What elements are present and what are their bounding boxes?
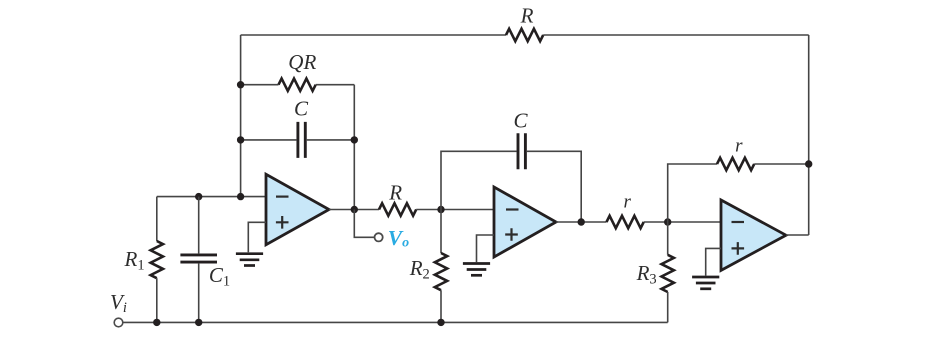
wire: op-amp 2 output line — [556, 221, 607, 223]
wire: C loop of op-amp 2, left vertical and top left — [441, 151, 517, 209]
node: 4-way junction at op-amp 2 input — [437, 206, 444, 213]
label r (middle) — [623, 192, 631, 213]
wire: top horizontal right segment — [543, 34, 809, 36]
resistor R1 — [151, 197, 163, 323]
wire: op-amp 1 non-inverting input to ground — [248, 222, 266, 252]
wire: C branch left (op-amp 1 feedback) — [241, 139, 297, 141]
resistor R2 — [435, 210, 447, 323]
wire: left vertical of outer feedback loop — [240, 35, 242, 197]
wire: op-amp 2 non-inverting input to ground — [477, 235, 495, 262]
wire: QR branch right — [316, 84, 355, 86]
label C (op-amp 2) — [513, 109, 528, 133]
node: feedback junction on minus line — [237, 193, 244, 200]
terminal Vo (open circle) — [375, 233, 383, 241]
node: C junction on right vertical — [351, 136, 358, 143]
wire: top horizontal left segment — [241, 34, 506, 36]
svg-text:r: r — [623, 192, 631, 213]
node: C junction on left vertical — [237, 136, 244, 143]
wire: Vo tap — [354, 210, 374, 238]
wire: right vertical of outer feedback loop — [808, 35, 810, 235]
node: 4-way junction at op-amp 3 input — [664, 218, 671, 225]
wire: feedback r to right vertical — [754, 163, 809, 165]
wire: C loop of op-amp 2, top right and right vertical — [527, 151, 581, 222]
node: R1 on bottom rail — [153, 319, 160, 326]
node: C1 on bottom rail — [195, 319, 202, 326]
wire: op-amp 1 inverting input line — [157, 196, 266, 198]
wire: op-amp 3 feedback loop, left vertical and top — [668, 164, 717, 222]
label QR — [288, 50, 316, 74]
wire: r to op-amp 3 inverting input — [644, 221, 721, 223]
wire: op-amp 3 non-inverting input to ground — [706, 248, 721, 275]
resistor R (middle) — [379, 203, 416, 215]
capacitor C1 — [180, 197, 217, 323]
svg-text:R: R — [388, 180, 402, 204]
node: op-amp 1 output / Vo tap — [351, 206, 358, 213]
ground (op-amp 3) — [692, 277, 719, 289]
svg-text:QR: QR — [288, 50, 316, 74]
wire: right vertical of QR/C loop — [353, 85, 355, 210]
label r (op-amp 3 feedback) — [735, 136, 743, 157]
op-amp U3 — [721, 200, 786, 270]
label R2 — [409, 256, 430, 283]
wire: op-amp 1 output line — [329, 209, 379, 211]
resistor R3 — [662, 222, 674, 322]
wire: op-amp 3 output to right vertical — [786, 234, 809, 236]
label C (op-amp 1) — [294, 96, 309, 120]
resistor QR — [279, 79, 316, 91]
svg-text:C: C — [294, 96, 309, 120]
wire: QR branch left — [241, 84, 279, 86]
label Vo — [388, 226, 409, 251]
resistor r (op-amp 3 feedback) — [717, 158, 754, 170]
op-amp U1 — [266, 174, 329, 244]
label R (top) — [520, 3, 534, 27]
label R3 — [636, 261, 657, 288]
node: R2 on bottom rail — [437, 319, 444, 326]
label Vi — [110, 290, 127, 316]
wire: R to op-amp 2 inverting input — [416, 209, 494, 211]
svg-text:r: r — [735, 136, 743, 157]
wire: bottom rail — [123, 321, 668, 323]
node: C1 junction on minus line — [195, 193, 202, 200]
svg-text:R: R — [520, 3, 534, 27]
node: op-amp 2 output — [578, 218, 585, 225]
svg-text:C: C — [513, 109, 528, 133]
terminal Vi (open circle) — [114, 318, 123, 327]
capacitor C (op-amp 1 feedback) — [298, 122, 305, 158]
resistor R (top feedback) — [506, 29, 543, 41]
resistor r (middle) — [607, 216, 644, 228]
label C1 — [209, 263, 230, 290]
ground (op-amp 1) — [236, 254, 263, 266]
label R1 — [124, 247, 145, 274]
label R (middle) — [388, 180, 402, 204]
wire: C branch right — [307, 139, 355, 141]
ground (op-amp 2) — [463, 264, 490, 276]
node: QR junction on left vertical — [237, 81, 244, 88]
op-amp U2 — [494, 187, 556, 257]
node: feedback junction on right vertical — [805, 160, 812, 167]
capacitor C (op-amp 2 feedback) — [518, 133, 525, 169]
